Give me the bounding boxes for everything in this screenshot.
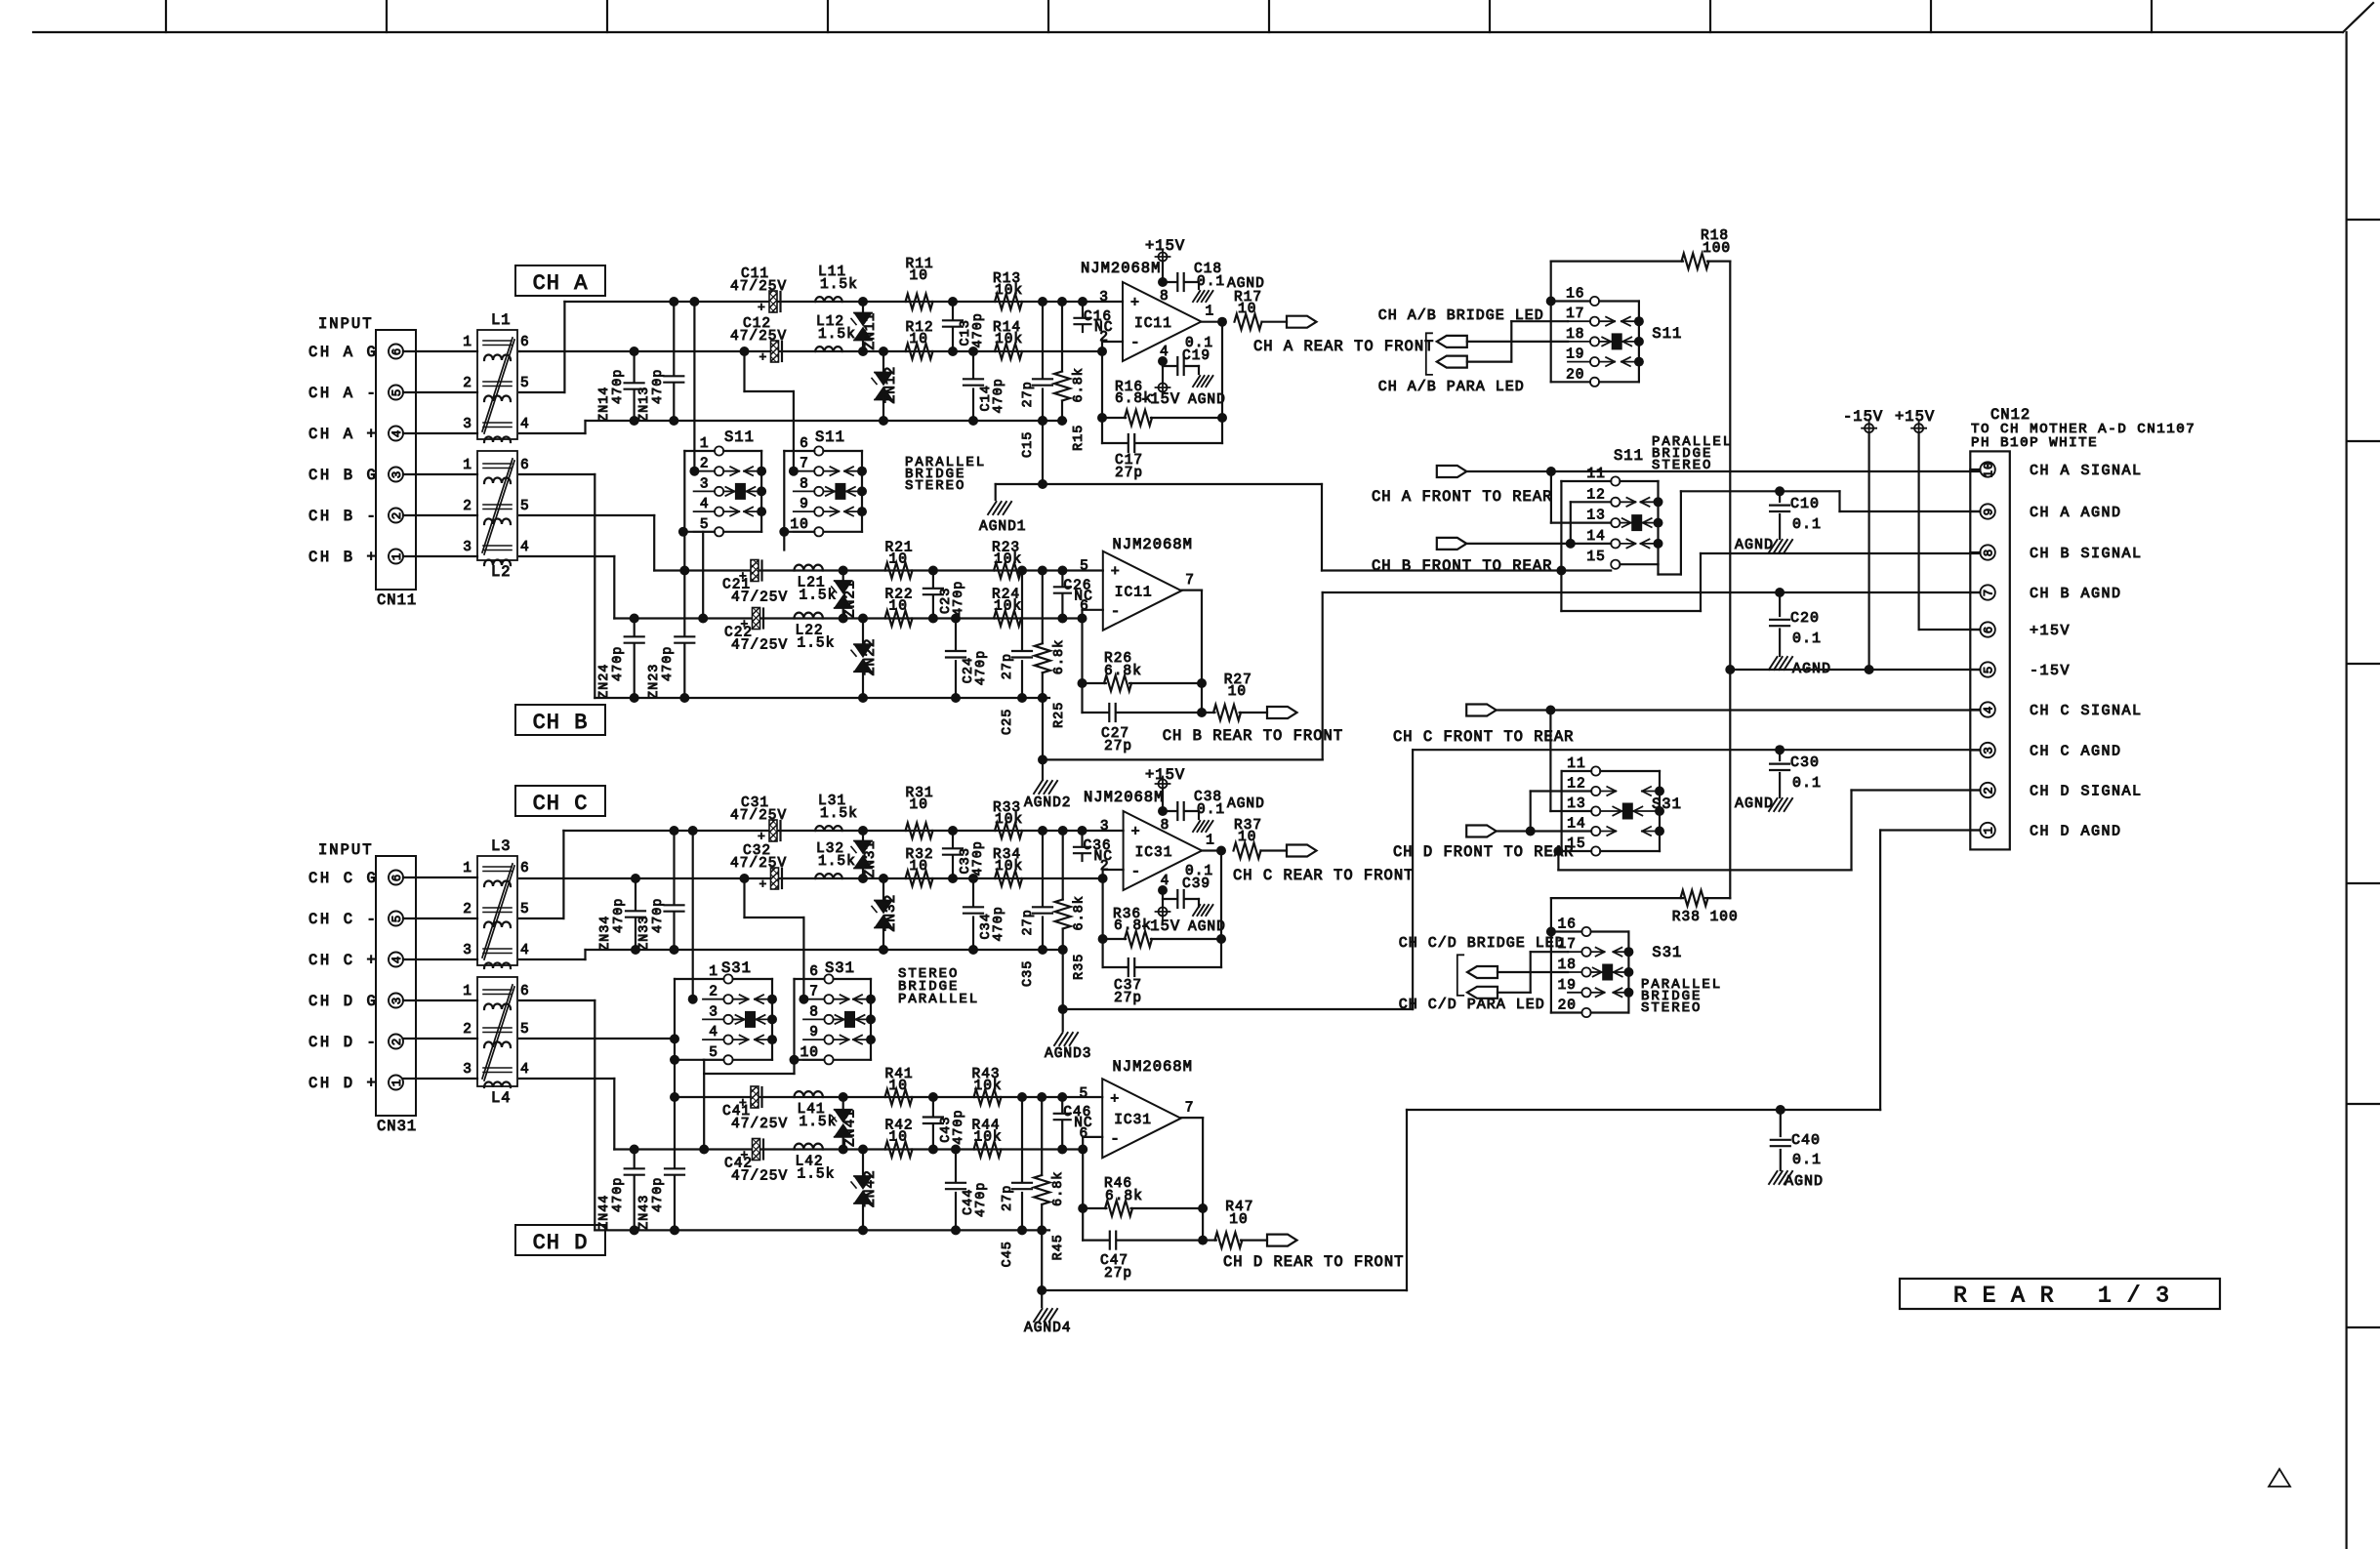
resistor R36 feedback [1101,878,1103,967]
svg-text:27p: 27p [1104,1266,1132,1282]
wire S11R bottom jog to CH B line2 area [783,532,785,550]
wire gnd rail 2 [595,697,1049,699]
svg-text:CH C +: CH C + [308,952,378,969]
svg-text:13: 13 [1567,796,1585,812]
capacitor C40 [1776,1105,1785,1115]
svg-text:5: 5 [700,517,710,533]
svg-text:AGND: AGND [1735,537,1774,553]
svg-text:10k: 10k [994,599,1022,615]
capacitor C46 NC [1061,1097,1063,1112]
svg-text:IC11: IC11 [1115,586,1153,601]
svg-text:470p: 470p [612,898,627,933]
svg-text:18: 18 [1558,958,1577,973]
svg-text:2: 2 [463,499,472,514]
resistor R45 [1041,1097,1043,1175]
op-amp IC31 B half [1102,1079,1181,1158]
inductor L11 [815,297,842,302]
wire line2 1 [519,350,1102,352]
svg-text:470p: 470p [611,369,626,404]
capacitor C47 feedback [1083,1239,1108,1241]
capacitor C31 [769,820,777,841]
svg-text:ZN13: ZN13 [637,387,652,422]
wire CH A G to line2 [518,350,520,352]
zener ZN11 [862,302,864,313]
svg-text:1.5k: 1.5k [818,327,856,343]
svg-text:1.5k: 1.5k [820,806,858,822]
resistor R44 [974,1142,1002,1158]
wire +15V to CN12 pin6 [1919,629,1981,631]
wire -15V to CN12 pin5 [1730,669,1980,671]
svg-text:CH A -: CH A - [308,385,378,402]
svg-text:S31: S31 [1652,944,1682,961]
wire R18 to -15V rail [1729,262,1731,899]
svg-text:7: 7 [800,457,809,472]
wires CN31 to L4 [403,999,477,1001]
switch S11 (block 16-20) [1550,262,1552,383]
CN12 pin 4 [1980,702,1994,716]
svg-text:11: 11 [1567,756,1585,772]
wire AGND1 net to CN12 pin9 [1680,491,1682,574]
svg-text:CH B SIGNAL: CH B SIGNAL [2030,546,2143,562]
svg-text:+15V: +15V [2030,623,2071,639]
svg-text:470p: 470p [992,906,1006,941]
svg-text:STEREO: STEREO [905,478,965,494]
ground AGND1 [1042,421,1044,484]
CN12 pin 7 [1980,585,1994,599]
svg-text:C25: C25 [1001,709,1015,735]
svg-text:CH A SIGNAL: CH A SIGNAL [2030,463,2143,479]
svg-text:6.8k: 6.8k [1114,918,1152,934]
svg-text:C20: C20 [1790,610,1820,627]
svg-text:470p: 470p [611,1177,626,1212]
resistor R17 [1235,314,1262,330]
svg-text:27p: 27p [1114,991,1142,1006]
svg-text:IC31: IC31 [1135,845,1173,861]
svg-text:4: 4 [520,540,530,555]
capacitor C16 NC [1082,302,1084,316]
svg-text:8: 8 [800,476,809,492]
svg-text:6: 6 [1080,599,1089,615]
capacitor C26 NC [1061,571,1063,586]
svg-text:6: 6 [800,436,809,452]
wire IC11A output [1202,321,1221,323]
svg-text:18: 18 [1566,327,1584,343]
svg-text:R E A R 1 / 3: R E A R 1 / 3 [1953,1284,2170,1309]
svg-text:CH B +: CH B + [308,549,378,566]
svg-text:1: 1 [1206,834,1215,849]
wire AGND1 to CH B front-rear line [1321,484,1323,571]
svg-text:4: 4 [520,1062,530,1078]
inductor L12 [815,346,842,351]
svg-text:10: 10 [1228,684,1247,700]
svg-text:2: 2 [463,902,472,917]
svg-text:9: 9 [1983,508,1996,516]
svg-text:CN31: CN31 [377,1118,417,1135]
svg-text:6.8k: 6.8k [1072,367,1087,402]
wire line1 1 [564,301,1123,303]
resistor R27 [1202,712,1214,713]
svg-text:1: 1 [463,458,472,473]
svg-text:100: 100 [1703,241,1731,257]
svg-text:470p: 470p [952,581,966,616]
bracket LED flags (A/B) [1426,333,1432,375]
resistor R41 [885,1089,913,1105]
wire C40 line [1407,1109,1880,1111]
svg-text:CH B -: CH B - [308,508,378,525]
resistor R42 [885,1142,913,1158]
capacitor ZN44 [634,1150,636,1168]
svg-text:10: 10 [910,797,928,813]
svg-text:1.5k: 1.5k [800,1115,838,1130]
wire CH B AGND line to CN12 pin7 [1323,591,1981,593]
svg-text:3: 3 [709,1004,718,1020]
capacitor C42 [753,1139,760,1161]
svg-text:3: 3 [700,476,710,492]
svg-text:ZN23: ZN23 [647,664,662,699]
resistor R16 feedback [1101,351,1103,444]
svg-text:6.8k: 6.8k [1051,1171,1066,1206]
wire CH C f2r net to S31 pin13 [1549,711,1551,812]
svg-text:+15V: +15V [1145,237,1185,255]
svg-text:7: 7 [1185,1101,1195,1117]
svg-text:10: 10 [1229,1212,1248,1228]
svg-text:1: 1 [1206,305,1215,320]
svg-text:2: 2 [700,457,710,472]
resistor R38 [1551,897,1683,899]
switch S31 (block 16-20) [1550,898,1552,1012]
svg-text:C15: C15 [1021,431,1036,458]
svg-text:5: 5 [1983,666,1996,674]
connector CN31 [376,856,416,1116]
svg-text:5: 5 [1080,559,1089,575]
wire line1 3 [563,830,1123,832]
wire led flag2 to S11 pin17 [1467,361,1512,363]
svg-text:12: 12 [1567,777,1585,793]
svg-text:5: 5 [520,902,530,917]
capacitor C24 [955,619,957,650]
svg-text:2: 2 [1983,786,1996,795]
svg-text:CH D +: CH D + [308,1075,378,1092]
inductor L3 [477,856,517,965]
connector flag CH A/B para led [1437,356,1467,368]
svg-text:47/25V: 47/25V [730,856,787,872]
inductor L4 [477,977,517,1086]
svg-text:6.8k: 6.8k [1052,639,1067,674]
wire CH B front-to-rear flag to S11 pin14 [1466,543,1611,545]
capacitor C11 [769,291,777,312]
svg-text:14: 14 [1586,529,1605,545]
svg-text:4: 4 [700,497,710,512]
wire AGND2 to CN12 pin7 riser [1322,592,1324,759]
svg-text:10: 10 [910,332,928,347]
svg-text:1: 1 [463,335,472,350]
inductor L21 [795,565,823,571]
connector flag CH D REAR TO FRONT [1267,1235,1297,1246]
svg-text:10k: 10k [995,332,1023,347]
svg-text:INPUT: INPUT [318,841,374,859]
svg-text:CH B AGND: CH B AGND [2030,586,2122,602]
connector flag CH A FRONT TO REAR [1437,466,1467,477]
svg-text:-: - [1111,603,1122,621]
svg-text:3: 3 [1983,746,1996,754]
wire inverting input jog 2 [1081,610,1083,619]
svg-text:47/25V: 47/25V [731,638,788,654]
svg-text:S11: S11 [815,428,845,446]
svg-text:1: 1 [463,984,472,999]
svg-text:AGND: AGND [1735,795,1774,812]
svg-text:47/25V: 47/25V [730,329,787,345]
svg-text:CH B REAR TO FRONT: CH B REAR TO FRONT [1163,727,1343,745]
svg-text:1.5k: 1.5k [798,1167,836,1183]
border tick marks top [165,0,167,32]
wire inverting input jog 1 [1101,342,1103,351]
wire S31 bottom to CH D line2 [703,1060,705,1074]
svg-text:C19: C19 [1182,348,1211,364]
svg-text:CH B G: CH B G [308,467,378,484]
svg-text:6: 6 [1079,1126,1088,1142]
svg-text:1.5k: 1.5k [800,589,838,604]
capacitor C34 [972,878,974,906]
svg-text:ZN34: ZN34 [598,916,613,951]
inductor L42 [795,1144,823,1150]
svg-text:27p: 27p [1001,653,1015,679]
capacitor C32 [771,868,779,889]
svg-text:INPUT: INPUT [318,315,374,333]
wire S31R bottom jog [793,1060,795,1074]
svg-text:ZN32: ZN32 [883,894,899,932]
svg-text:AGND2: AGND2 [1024,795,1072,811]
svg-text:S11: S11 [1652,325,1682,343]
svg-text:5: 5 [520,499,530,514]
resistor R32 [906,871,933,886]
svg-text:10k: 10k [974,1079,1003,1094]
svg-text:10: 10 [910,859,928,875]
ground AGND2 [1042,698,1044,759]
connector flag CH A/B bridge led [1437,336,1467,347]
svg-text:27p: 27p [1021,909,1036,935]
inductor L1 [477,330,517,439]
svg-text:8: 8 [1161,818,1170,834]
wire gnd rail 1 [586,420,1067,422]
wire CH D G jog to rail [519,999,595,1001]
svg-text:CH C SIGNAL: CH C SIGNAL [2030,703,2143,719]
svg-text:470p: 470p [952,1109,966,1144]
zener ZN41 [842,1097,844,1110]
wire AGND3 line to CN12 pin3 (C30 line) [1413,749,1980,751]
svg-text:PARALLEL: PARALLEL [898,992,979,1007]
svg-text:3: 3 [463,540,472,555]
svg-text:27p: 27p [1115,466,1143,481]
wire CH B + jog to line2 [519,555,614,557]
svg-text:+: + [1131,824,1141,840]
sheet border top line [33,31,2343,33]
svg-text:3: 3 [463,943,472,958]
CN12 pin 1 [1980,823,1994,837]
wire S31 pin15 to CH D signal riser [1558,850,1591,852]
svg-text:6: 6 [520,458,530,473]
svg-text:5: 5 [520,376,530,391]
svg-text:3: 3 [463,1062,472,1078]
svg-text:11: 11 [1586,467,1605,482]
svg-text:AGND1: AGND1 [979,519,1027,535]
svg-text:9: 9 [809,1025,819,1040]
resistor R13 [995,294,1022,309]
svg-text:10: 10 [790,517,808,533]
wire S11 bottom to CH B line2 [702,532,704,619]
svg-text:AGND: AGND [1188,392,1226,408]
svg-text:1: 1 [709,964,718,980]
svg-text:10: 10 [889,1079,908,1094]
op-amp IC11 B half [1103,551,1182,631]
svg-text:1.5k: 1.5k [798,636,836,652]
resistor R21 [885,563,913,579]
connector CN11 [376,330,416,590]
zener ZN22 [862,619,864,645]
svg-text:+15V: +15V [1145,766,1185,784]
wire CH A front-to-rear to CN12 pin10 [1466,470,1980,472]
resistor R15 [1061,302,1063,372]
resistor R31 [906,823,933,838]
power +15V (IC31) [1159,780,1168,789]
wire line2 4 [614,1148,1083,1150]
svg-text:CH D SIGNAL: CH D SIGNAL [2030,784,2143,800]
capacitor C10 [1775,486,1785,496]
capacitor C35 [1042,831,1044,906]
svg-text:-: - [1130,334,1141,351]
svg-text:S11: S11 [724,428,755,446]
capacitor C27 feedback [1083,712,1109,713]
svg-text:2: 2 [463,1022,472,1038]
resistor R14 [995,344,1022,359]
svg-text:+: + [759,350,768,365]
inductor L41 [795,1091,823,1097]
svg-text:L3: L3 [491,837,512,855]
resistor R22 [885,611,913,627]
resistor R24 [994,611,1021,627]
wires CN31 to L3 [403,876,477,878]
capacitor C12 [771,341,779,362]
svg-text:AGND: AGND [1227,796,1265,812]
svg-text:5: 5 [520,1022,530,1038]
svg-text:4: 4 [520,417,530,432]
svg-text:CH A AGND: CH A AGND [2030,505,2122,521]
svg-text:6.8k: 6.8k [1115,391,1153,407]
wires CN11 to L2 [403,473,477,475]
wire IC11B output [1182,589,1203,591]
svg-text:PH B10P WHITE: PH B10P WHITE [1971,435,2098,451]
svg-text:17: 17 [1566,306,1584,322]
svg-text:CH C AGND: CH C AGND [2030,744,2122,760]
svg-text:10: 10 [1238,302,1256,317]
capacitor C20 [1775,588,1785,597]
svg-text:AGND3: AGND3 [1045,1046,1092,1062]
resistor R47 [1203,1239,1216,1241]
svg-text:470p: 470p [651,369,666,404]
svg-text:13: 13 [1586,509,1605,524]
svg-text:7: 7 [1983,589,1996,597]
svg-text:ZN33: ZN33 [637,916,652,951]
svg-text:ZN31: ZN31 [863,840,879,878]
label box CH D [515,1225,605,1255]
svg-text:CH A +: CH A + [308,426,378,443]
svg-text:L4: L4 [491,1089,512,1107]
zener ZN32 [882,878,884,901]
svg-text:AGND4: AGND4 [1024,1321,1072,1336]
wire CH B front-rear stub [1657,564,1659,574]
wire CH A - jog to line1 [519,391,564,393]
connector flag CH C/D bridge led [1467,966,1498,978]
svg-text:6: 6 [809,964,819,980]
resistor R43 [974,1089,1002,1105]
power -15V (IC11) [1162,366,1164,383]
svg-text:NJM2068M: NJM2068M [1113,536,1193,553]
capacitor C36 NC [1081,831,1083,845]
wire IC31B output [1181,1117,1203,1119]
svg-text:470p: 470p [661,646,676,681]
ground AGND4 [1041,1230,1043,1290]
svg-text:C35: C35 [1021,960,1036,987]
svg-text:20: 20 [1566,367,1584,383]
svg-text:C45: C45 [1001,1241,1015,1267]
svg-text:470p: 470p [971,840,986,876]
svg-text:4: 4 [1983,706,1996,714]
capacitor C23 [932,571,934,588]
wire S31 pin5 edge to CH D line1 [674,1060,676,1097]
svg-text:6: 6 [520,861,530,876]
svg-text:4: 4 [709,1025,718,1040]
svg-text:0.1: 0.1 [1792,516,1822,533]
capacitor C43 [932,1097,934,1116]
svg-text:CH C/D BRIDGE LED: CH C/D BRIDGE LED [1399,935,1565,952]
svg-text:1: 1 [463,861,472,876]
svg-text:1: 1 [700,436,710,452]
svg-text:1.5k: 1.5k [820,277,858,293]
svg-text:2: 2 [1099,330,1109,346]
wire CH B G jog to rail [519,473,595,475]
inductor L2 [477,451,517,560]
svg-text:4: 4 [520,943,530,958]
wire CH A + jog to rail [519,432,586,434]
wire gnd rail 4 [595,1229,1049,1231]
connector flag CH C FRONT TO REAR [1466,705,1497,716]
svg-text:+: + [1110,1091,1120,1108]
inductor L22 [795,613,823,619]
CN12 pin 5 [1980,662,1994,676]
ground AGND3 [1062,950,1064,1009]
svg-text:CH A G: CH A G [308,344,378,361]
svg-text:ZN43: ZN43 [637,1195,652,1230]
svg-text:CH A FRONT TO REAR: CH A FRONT TO REAR [1372,488,1552,506]
resistor R26 feedback [1081,619,1083,713]
capacitor ZN14 [633,351,635,382]
wire inverting input jog 3 [1101,870,1103,878]
svg-text:2: 2 [1100,859,1110,875]
svg-text:ZN24: ZN24 [597,664,612,699]
svg-text:R15: R15 [1072,425,1087,451]
capacitor C41 [751,1086,759,1108]
svg-text:47/25V: 47/25V [731,1169,788,1185]
svg-text:IC11: IC11 [1134,316,1172,332]
svg-text:470p: 470p [974,650,989,685]
wire S11 pin12 jog [1571,501,1611,503]
capacitor C14 [972,351,974,378]
wire CH D signal riser to CN12 pin2 [1850,791,1852,871]
capacitor C17 feedback [1102,442,1128,444]
svg-text:14: 14 [1567,817,1585,833]
zener ZN12 [882,351,884,373]
CN12 pin 3 [1980,743,1994,757]
CN12 pin 2 [1980,783,1994,797]
